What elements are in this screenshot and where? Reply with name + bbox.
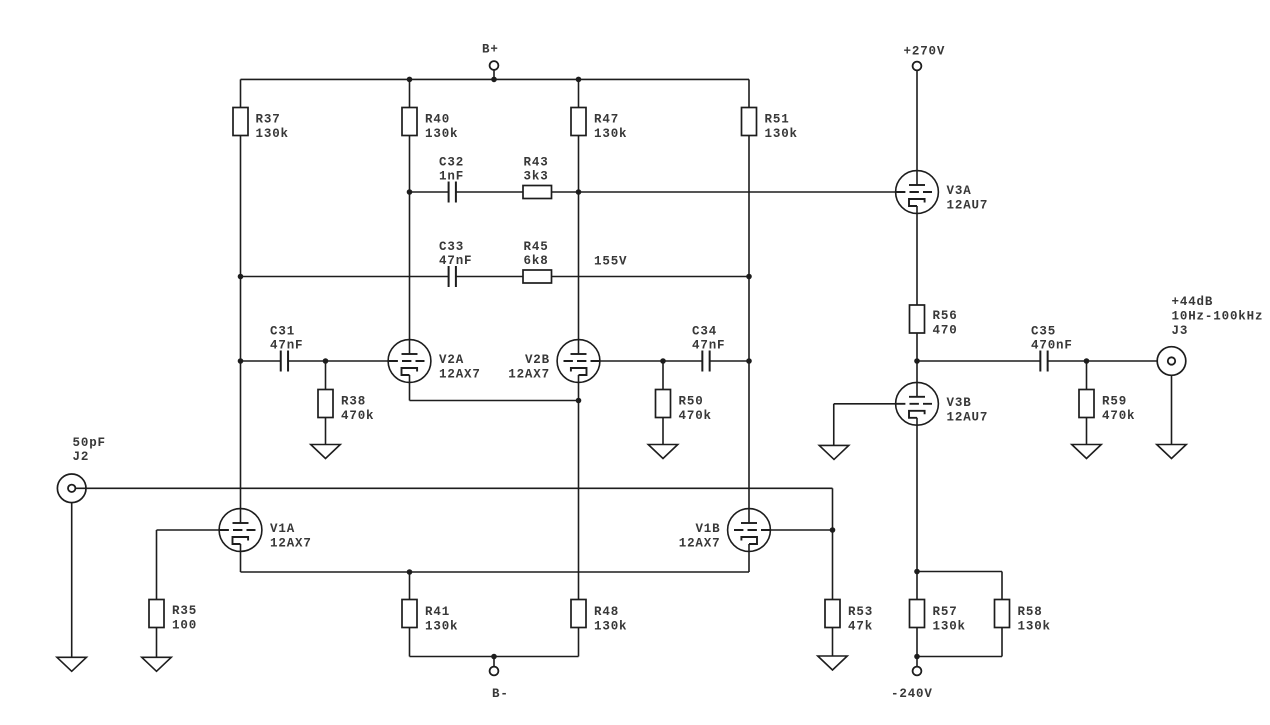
resistor R58 [995, 600, 1051, 634]
svg-text:R51: R51 [765, 113, 790, 127]
svg-text:R47: R47 [594, 113, 619, 127]
wire [240, 79, 242, 107]
wire [241, 78, 750, 80]
svg-text:V3B: V3B [947, 396, 972, 410]
svg-text:R53: R53 [848, 605, 873, 619]
junction [491, 77, 497, 83]
wire [748, 79, 750, 107]
svg-text:R58: R58 [1018, 605, 1043, 619]
wire [578, 375, 580, 600]
svg-text:R50: R50 [679, 395, 704, 409]
svg-text:C31: C31 [270, 325, 295, 339]
junction [914, 569, 920, 575]
ground [819, 445, 849, 459]
svg-text:-240V: -240V [891, 687, 933, 701]
connector J3 [1157, 295, 1263, 375]
wire [770, 529, 833, 531]
wire [410, 191, 449, 193]
svg-text:R37: R37 [256, 113, 281, 127]
svg-text:R41: R41 [425, 605, 450, 619]
svg-text:C34: C34 [692, 325, 717, 339]
junction [576, 398, 582, 404]
terminal B+ [482, 43, 499, 80]
wire [916, 628, 918, 657]
wire [833, 404, 835, 446]
wire [240, 136, 242, 524]
svg-text:12AX7: 12AX7 [508, 368, 550, 382]
resistor R38 [318, 390, 374, 424]
wire [241, 571, 750, 573]
svg-text:6k8: 6k8 [524, 254, 549, 268]
ground [648, 445, 678, 459]
wire [241, 360, 281, 362]
wire [662, 361, 664, 390]
resistor R50 [656, 390, 712, 424]
terminal B- [490, 657, 509, 702]
svg-text:47nF: 47nF [439, 254, 472, 268]
svg-text:155V: 155V [594, 255, 627, 269]
junction [407, 189, 413, 195]
junction [407, 569, 413, 575]
wire [409, 136, 411, 355]
svg-text:12AX7: 12AX7 [270, 537, 312, 551]
wire [409, 628, 411, 657]
wire [916, 333, 918, 361]
svg-text:100: 100 [172, 619, 197, 633]
resistor R45 [523, 240, 552, 283]
junction [576, 77, 582, 83]
svg-text:V2A: V2A [439, 353, 464, 367]
svg-text:R59: R59 [1102, 395, 1127, 409]
resistor R56 [910, 305, 958, 338]
wire [916, 206, 918, 305]
svg-text:R38: R38 [341, 395, 366, 409]
wire [410, 400, 579, 402]
svg-text:130k: 130k [765, 127, 798, 141]
wire [578, 79, 580, 107]
svg-text:C35: C35 [1031, 325, 1056, 339]
svg-text:50pF: 50pF [73, 436, 106, 450]
junction [238, 274, 244, 280]
resistor R57 [910, 600, 966, 634]
wire [832, 628, 834, 657]
wire [916, 418, 918, 572]
wire [241, 276, 449, 278]
svg-text:R45: R45 [524, 240, 549, 254]
svg-text:130k: 130k [256, 127, 289, 141]
svg-text:12AU7: 12AU7 [947, 199, 989, 213]
resistor R59 [1079, 390, 1135, 424]
wire [578, 628, 580, 657]
wire [288, 360, 388, 362]
wire [1086, 418, 1088, 445]
resistor R53 [825, 600, 873, 634]
wire [240, 544, 242, 572]
svg-text:130k: 130k [1018, 620, 1051, 634]
svg-text:130k: 130k [425, 620, 458, 634]
wire [916, 572, 918, 600]
svg-text:10Hz-100kHz: 10Hz-100kHz [1172, 310, 1264, 324]
svg-text:V1B: V1B [695, 522, 720, 536]
wire [409, 572, 411, 600]
svg-text:130k: 130k [425, 127, 458, 141]
resistor R48 [571, 600, 627, 634]
svg-text:12AX7: 12AX7 [679, 537, 721, 551]
svg-text:470: 470 [933, 324, 958, 338]
svg-text:3k3: 3k3 [524, 170, 549, 184]
junction [914, 654, 920, 660]
svg-text:C33: C33 [439, 240, 464, 254]
svg-text:47nF: 47nF [692, 339, 725, 353]
resistor R51 [742, 108, 798, 142]
svg-text:R56: R56 [933, 309, 958, 323]
triode V3B [896, 382, 989, 425]
terminal -240V [891, 657, 933, 702]
svg-text:12AX7: 12AX7 [439, 368, 481, 382]
svg-text:R57: R57 [933, 605, 958, 619]
svg-text:B-: B- [492, 687, 509, 701]
svg-text:470k: 470k [1102, 409, 1135, 423]
connector J2 [57, 436, 106, 503]
capacitor C35 [1031, 325, 1073, 372]
wire [832, 530, 834, 600]
ground [311, 445, 341, 459]
ground [57, 657, 86, 671]
wire [552, 276, 750, 278]
resistor R43 [523, 156, 552, 199]
wire [917, 656, 1002, 658]
resistor R40 [402, 108, 458, 142]
wire [456, 191, 523, 193]
svg-text:12AU7: 12AU7 [947, 410, 989, 424]
svg-text:J3: J3 [1172, 324, 1189, 338]
junction [323, 358, 329, 364]
wire [663, 360, 702, 362]
triode V2A [388, 340, 481, 383]
wire [325, 418, 327, 445]
svg-text:47nF: 47nF [270, 339, 303, 353]
resistor R47 [571, 108, 627, 142]
svg-text:470k: 470k [341, 409, 374, 423]
junction [1084, 358, 1090, 364]
junction [746, 274, 752, 280]
svg-text:R48: R48 [594, 605, 619, 619]
svg-text:R43: R43 [524, 156, 549, 170]
wire [600, 360, 664, 362]
svg-text:1nF: 1nF [439, 170, 464, 184]
svg-text:130k: 130k [933, 620, 966, 634]
wire [832, 488, 834, 530]
wire [1048, 360, 1168, 362]
wire [409, 79, 411, 107]
junction [660, 358, 666, 364]
wire [578, 136, 580, 355]
svg-text:R35: R35 [172, 604, 197, 618]
wire [156, 628, 158, 658]
wire [748, 136, 750, 524]
wire [71, 503, 73, 658]
wire [552, 191, 897, 193]
svg-text:130k: 130k [594, 620, 627, 634]
triode V2B [508, 340, 600, 383]
svg-text:B+: B+ [482, 43, 499, 57]
triode V1A [219, 509, 312, 552]
wire [325, 361, 327, 390]
svg-text:C32: C32 [439, 156, 464, 170]
junction [491, 654, 497, 660]
capacitor C32 [439, 156, 464, 203]
ground [818, 656, 848, 670]
triode V3A [896, 171, 989, 214]
wire [710, 360, 749, 362]
svg-text:470nF: 470nF [1031, 339, 1073, 353]
wire [157, 529, 220, 531]
svg-text:+270V: +270V [904, 45, 946, 59]
svg-text:47k: 47k [848, 620, 873, 634]
svg-text:R40: R40 [425, 113, 450, 127]
node 155V [594, 255, 627, 269]
wire [456, 276, 523, 278]
capacitor C34 [692, 325, 725, 372]
wire [410, 656, 579, 658]
ground [1072, 445, 1102, 459]
wire [916, 361, 918, 397]
wire [156, 530, 158, 600]
svg-text:V3A: V3A [947, 184, 972, 198]
wire [409, 375, 411, 401]
junction [238, 358, 244, 364]
junction [830, 527, 836, 533]
wire [1001, 572, 1003, 600]
wire [917, 571, 1002, 573]
wire [917, 360, 1040, 362]
capacitor C31 [270, 325, 303, 372]
junction [746, 358, 752, 364]
svg-text:130k: 130k [594, 127, 627, 141]
svg-text:+44dB: +44dB [1172, 295, 1214, 309]
ground [142, 657, 172, 671]
ground [1157, 445, 1187, 459]
junction [576, 189, 582, 195]
wire [1086, 361, 1088, 390]
resistor R37 [233, 108, 289, 142]
capacitor C33 [439, 240, 472, 287]
junction [914, 358, 920, 364]
wire [662, 418, 664, 445]
wire [75, 487, 832, 489]
svg-text:V1A: V1A [270, 522, 295, 536]
wire [748, 544, 750, 572]
wire [834, 403, 896, 405]
svg-text:J2: J2 [73, 450, 90, 464]
terminal +270V [904, 45, 946, 186]
resistor R35 [149, 600, 197, 633]
triode V1B [679, 509, 771, 552]
wire [1171, 375, 1173, 444]
wire [1001, 628, 1003, 657]
junction [407, 77, 413, 83]
svg-text:V2B: V2B [525, 353, 550, 367]
svg-text:470k: 470k [679, 409, 712, 423]
resistor R41 [402, 600, 458, 634]
